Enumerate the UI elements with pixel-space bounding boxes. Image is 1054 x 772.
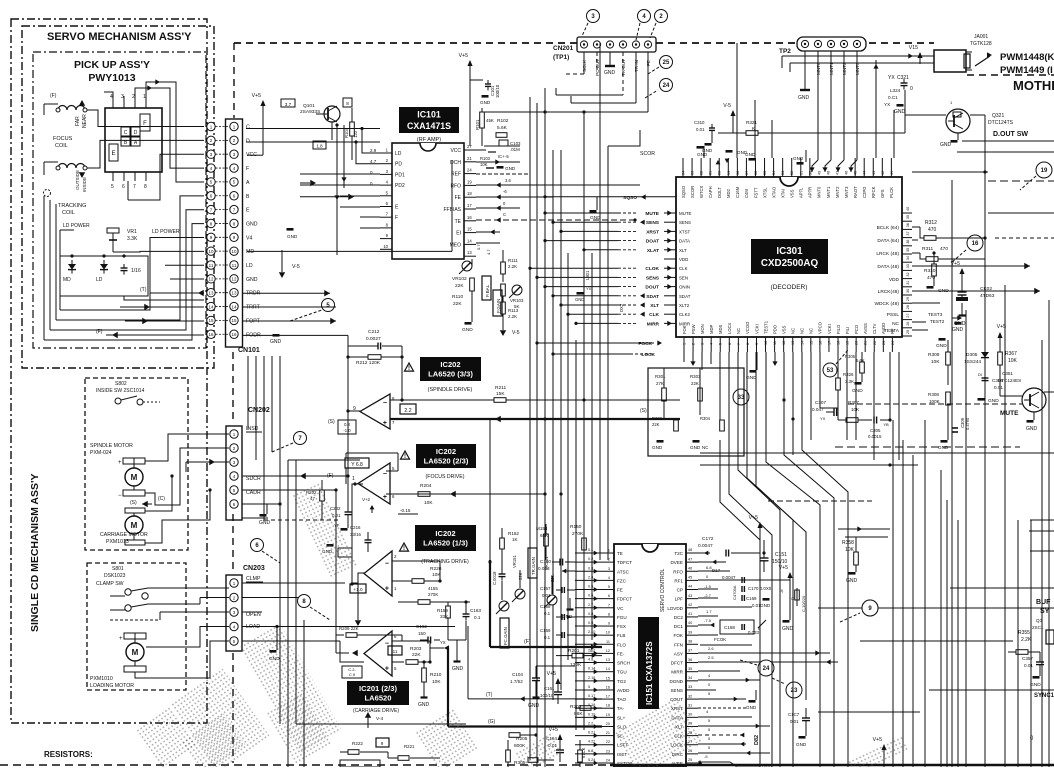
svg-text:R111: R111 <box>508 258 518 263</box>
svg-text:YX: YX <box>586 286 592 291</box>
svg-text:SYNC1: SYNC1 <box>1034 693 1054 699</box>
assembly border SINGLE CD MECHANISM <box>11 19 207 723</box>
resistor R312 <box>912 220 950 240</box>
svg-text:61CK: 61CK <box>581 747 586 758</box>
node 9 <box>840 600 878 622</box>
svg-text:18: 18 <box>606 704 610 708</box>
svg-text:VR151: VR151 <box>512 555 517 568</box>
svg-text:0.2: 0.2 <box>588 557 593 561</box>
capacitor C216 <box>322 525 372 557</box>
svg-text:FOK: FOK <box>674 633 684 638</box>
svg-text:M: M <box>132 648 139 657</box>
svg-text:0.1: 0.1 <box>544 635 551 640</box>
svg-text:17: 17 <box>467 203 472 208</box>
svg-text:CN201: CN201 <box>553 45 574 52</box>
svg-text:13: 13 <box>231 291 237 296</box>
node 23 <box>772 678 802 698</box>
svg-text:LA6520 (3/3): LA6520 (3/3) <box>428 369 473 378</box>
resistor R358 <box>842 537 858 584</box>
svg-text:2.2: 2.2 <box>404 408 411 414</box>
svg-text:LD POWER: LD POWER <box>152 229 180 235</box>
svg-text:39: 39 <box>906 215 910 219</box>
svg-text:MNT0: MNT0 <box>817 186 822 198</box>
svg-text:49: 49 <box>817 171 821 175</box>
opamp2 misc <box>362 497 418 514</box>
opamp1 feedback <box>328 346 404 504</box>
svg-text:GND: GND <box>952 327 964 333</box>
svg-text:130K: 130K <box>570 662 582 668</box>
svg-text:FGU: FGU <box>617 615 627 620</box>
svg-text:FFBIAS: FFBIAS <box>443 207 461 213</box>
svg-text:+: + <box>385 586 389 593</box>
scan artifact 1 <box>172 669 269 770</box>
svg-text:−: − <box>383 400 387 407</box>
svg-text:11: 11 <box>393 649 398 654</box>
svg-text:1.7/52: 1.7/52 <box>510 679 523 684</box>
svg-text:CN101: CN101 <box>238 347 260 354</box>
scan artifact 2b <box>293 484 357 576</box>
diode LD <box>96 260 108 283</box>
svg-text:TAO: TAO <box>617 697 627 702</box>
capacitor C321 <box>884 75 913 115</box>
IC101 left wires <box>246 127 380 228</box>
pickup block <box>105 94 162 190</box>
wire staircase bus <box>720 352 848 767</box>
svg-text:35: 35 <box>906 248 910 252</box>
svg-text:22: 22 <box>606 740 610 744</box>
node 9 overlay <box>862 600 878 616</box>
ground R310 <box>927 286 950 294</box>
svg-text:16: 16 <box>606 685 610 689</box>
svg-text:2.6: 2.6 <box>708 646 714 651</box>
svg-text:COIL: COIL <box>62 210 75 216</box>
svg-text:31: 31 <box>688 703 692 707</box>
svg-text:GND: GND <box>745 152 756 157</box>
svg-text:XTAO: XTAO <box>771 186 776 198</box>
svg-text:WDCK (48): WDCK (48) <box>874 301 899 307</box>
svg-text:PCO: PCO <box>854 324 859 334</box>
svg-text:C.0018: C.0018 <box>492 571 497 585</box>
svg-text:NC: NC <box>791 328 796 334</box>
svg-text:0.14: 0.14 <box>588 667 595 671</box>
svg-text:TE: TE <box>617 551 623 556</box>
svg-text:IC101: IC101 <box>417 110 441 120</box>
svg-text:D17-: D17- <box>712 568 722 573</box>
svg-text:PWM1448(K: PWM1448(K <box>1000 52 1054 63</box>
svg-text:F: F <box>395 215 398 221</box>
svg-text:CXA1471S: CXA1471S <box>407 121 451 131</box>
svg-text:42: 42 <box>688 603 692 607</box>
resistor R202 <box>570 704 602 717</box>
svg-text:21: 21 <box>606 731 610 735</box>
carriage motor <box>100 508 148 545</box>
svg-text:0.033: 0.033 <box>538 566 550 571</box>
svg-text:(G): (G) <box>488 719 496 725</box>
resistor R150 <box>570 524 586 553</box>
ground cluster right <box>936 338 947 349</box>
svg-text:25: 25 <box>906 330 910 334</box>
connector CN202 <box>226 426 242 520</box>
transistor Q351 MUTE <box>848 324 1054 432</box>
svg-text:7: 7 <box>608 603 610 607</box>
capacitor C171 <box>712 568 790 600</box>
svg-text:AVDD: AVDD <box>617 688 630 693</box>
resistor R204 <box>418 483 545 506</box>
svg-text:2.2K: 2.2K <box>1021 637 1032 643</box>
svg-text:MUTE: MUTE <box>679 211 692 216</box>
svg-text:6.21: 6.21 <box>588 731 595 735</box>
svg-text:GND: GND <box>259 520 271 526</box>
carriage bottom parts <box>340 738 440 767</box>
capacitor C212 <box>348 329 402 350</box>
svg-text:DOLT: DOLT <box>717 187 722 198</box>
svg-text:OPEN: OPEN <box>246 612 261 618</box>
node 2 <box>655 10 668 23</box>
svg-text:FILO: FILO <box>836 324 841 334</box>
svg-text:YX: YX <box>888 75 895 81</box>
svg-text:FAR: FAR <box>75 116 81 126</box>
svg-text:0.1: 0.1 <box>474 615 481 620</box>
opamp2 wires <box>346 453 563 586</box>
svg-text:0.8: 0.8 <box>344 422 350 427</box>
svg-text:TRRT: TRRT <box>246 305 261 311</box>
svg-text:27: 27 <box>906 313 910 317</box>
svg-text:C150: C150 <box>540 559 551 564</box>
svg-text:XLT: XLT <box>650 303 659 309</box>
svg-text:10K: 10K <box>845 547 855 553</box>
capacitor C151r <box>760 540 788 572</box>
svg-text:24: 24 <box>663 83 670 89</box>
svg-text:Q321: Q321 <box>992 113 1004 119</box>
carriage motor wires <box>145 474 212 543</box>
svg-text:A: A <box>246 180 250 186</box>
svg-text:GND: GND <box>793 156 804 161</box>
svg-text:15: 15 <box>231 318 237 323</box>
crystal X301 <box>951 261 995 327</box>
svg-text:RFO: RFO <box>673 569 683 574</box>
svg-text:11: 11 <box>209 263 214 268</box>
svg-text:19: 19 <box>467 179 472 184</box>
svg-text:C158: C158 <box>540 604 551 609</box>
svg-text:SENS: SENS <box>646 220 660 226</box>
svg-text:SERVO MECHANISM ASS'Y: SERVO MECHANISM ASS'Y <box>47 31 192 43</box>
svg-text:17: 17 <box>606 695 610 699</box>
svg-text:Q101: Q101 <box>303 103 315 109</box>
svg-text:(S): (S) <box>640 408 647 414</box>
svg-text:C16M: C16M <box>735 186 740 198</box>
svg-text:PD1: PD1 <box>395 172 405 178</box>
svg-text:SDAT: SDAT <box>679 294 691 299</box>
power V-5 arrow <box>281 250 283 272</box>
svg-text:38: 38 <box>688 640 692 644</box>
resistor R112 <box>501 302 519 322</box>
svg-text:4.7: 4.7 <box>486 249 491 255</box>
svg-text:V+5: V+5 <box>549 727 558 733</box>
svg-text:R310: R310 <box>924 268 936 274</box>
svg-text:GND: GND <box>652 445 663 450</box>
svg-text:GND: GND <box>287 234 298 239</box>
svg-text:YX: YX <box>884 102 890 107</box>
svg-text:15: 15 <box>208 318 214 323</box>
svg-text:PXM-024: PXM-024 <box>90 450 112 456</box>
svg-text:DFCT: DFCT <box>671 661 683 666</box>
svg-text:R302: R302 <box>652 416 663 421</box>
IC201 carriage label <box>347 681 409 705</box>
svg-text:PWM1449 (I: PWM1449 (I <box>1000 65 1053 76</box>
svg-text:(T): (T) <box>140 287 147 293</box>
svg-text:C: C <box>503 212 506 217</box>
power V+5 right of IC151 <box>779 565 806 632</box>
capacitor C150 <box>538 559 575 572</box>
svg-text:RESISTORS:: RESISTORS: <box>44 750 93 759</box>
svg-text:LRCK (48): LRCK (48) <box>876 251 899 257</box>
warning triangle tracking <box>400 543 409 551</box>
IC301 SQSO wire <box>543 151 676 221</box>
svg-text:SRCH: SRCH <box>617 661 630 666</box>
svg-text:8: 8 <box>346 101 349 106</box>
svg-text:0.7: 0.7 <box>476 244 481 250</box>
svg-text:31: 31 <box>906 281 910 285</box>
svg-text:R211: R211 <box>495 385 506 391</box>
connector JA001 <box>782 34 992 72</box>
svg-text:C305: C305 <box>870 428 881 433</box>
svg-text:C151: C151 <box>775 552 787 558</box>
assembly border SERVO MECHANISM <box>22 26 214 368</box>
svg-text:1.7: 1.7 <box>706 609 712 614</box>
potentiometer VR151 <box>512 555 525 602</box>
connector CN203 <box>226 575 242 651</box>
svg-text:-2.7: -2.7 <box>704 593 712 598</box>
svg-text:3.7: 3.7 <box>285 102 292 107</box>
svg-text:PDO: PDO <box>772 324 777 334</box>
svg-text:TESTA: TESTA <box>884 328 900 334</box>
svg-text:FCOK: FCOK <box>714 637 726 642</box>
svg-text:(F): (F) <box>327 473 334 479</box>
svg-text:MOTHE: MOTHE <box>1013 78 1054 93</box>
svg-text:4.22: 4.22 <box>588 740 595 744</box>
svg-text:270K: 270K <box>428 592 438 597</box>
network C103 <box>480 140 521 171</box>
svg-text:V+5: V+5 <box>459 53 468 59</box>
svg-text:0.0047: 0.0047 <box>698 543 713 549</box>
svg-text:FOK: FOK <box>682 325 687 334</box>
capacitor C1 1/16 <box>121 264 141 275</box>
svg-text:LRCK(48): LRCK(48) <box>878 289 900 295</box>
svg-text:CLMP: CLMP <box>246 576 261 582</box>
svg-text:9: 9 <box>608 622 610 626</box>
svg-text:1: 1 <box>608 549 610 553</box>
svg-text:0.01: 0.01 <box>790 719 799 724</box>
IC301 label <box>751 239 828 274</box>
scan artifact 5 <box>616 699 701 772</box>
svg-text:(F): (F) <box>96 329 103 335</box>
svg-text:MEO: MEO <box>450 242 462 248</box>
svg-text:CLK: CLK <box>679 266 688 271</box>
svg-text:VCKI: VCKI <box>754 324 759 334</box>
svg-text:2.5: 2.5 <box>708 655 714 660</box>
capacitor C158 <box>540 604 575 620</box>
svg-text:E: E <box>111 151 115 157</box>
warning triangle focus <box>401 451 410 459</box>
svg-text:43: 43 <box>688 594 692 598</box>
scan artifact 7 <box>849 737 908 772</box>
loading motor <box>90 633 146 689</box>
ground TP2 <box>804 51 806 90</box>
svg-text:C351: C351 <box>1002 371 1013 376</box>
svg-text:V-5: V-5 <box>512 330 520 336</box>
svg-text:F.BAL: F.BAL <box>485 284 490 297</box>
svg-text:C159: C159 <box>540 628 551 633</box>
IC301 top pin stubs <box>682 158 684 177</box>
svg-text:−: − <box>383 471 387 478</box>
svg-text:0.C1: 0.C1 <box>888 95 898 100</box>
resistor R159 <box>398 586 470 640</box>
svg-text:2.2K: 2.2K <box>508 264 517 269</box>
svg-text:C163: C163 <box>470 608 481 613</box>
svg-text:C307: C307 <box>815 400 826 405</box>
svg-text:120: 120 <box>353 130 358 138</box>
svg-text:40: 40 <box>688 621 692 625</box>
assembly border loading <box>87 563 186 690</box>
IC151 CXA1372S body <box>614 544 686 767</box>
svg-text:C,10/220: C,10/220 <box>801 595 806 612</box>
svg-text:R202: R202 <box>306 490 317 495</box>
svg-text:FOCUS: FOCUS <box>53 136 73 142</box>
svg-text:CADR: CADR <box>246 490 261 496</box>
svg-text:BUF: BUF <box>1036 599 1051 606</box>
svg-text:TEST3: TEST3 <box>928 312 943 317</box>
svg-text:SQSO: SQSO <box>681 185 686 198</box>
svg-text:0.01: 0.01 <box>994 385 1003 390</box>
svg-text:+: + <box>119 636 123 642</box>
power V+5 at CN101 <box>260 100 265 106</box>
node 25 <box>660 56 673 69</box>
IC301 bottom drop wires <box>684 352 899 460</box>
svg-text:FE-: FE- <box>617 651 625 656</box>
inductor L301 <box>575 252 592 302</box>
svg-text:+: + <box>383 494 387 501</box>
svg-text:TP2: TP2 <box>779 48 791 55</box>
svg-text:ISET: ISET <box>617 752 627 757</box>
focus coil <box>44 93 92 149</box>
resistor R211 <box>390 385 680 402</box>
svg-text:DATA (48): DATA (48) <box>877 264 899 270</box>
svg-text:R103: R103 <box>480 156 491 161</box>
svg-text:32: 32 <box>688 694 692 698</box>
CN203 pin labels <box>246 576 263 630</box>
svg-text:46: 46 <box>688 566 692 570</box>
svg-text:GND: GND <box>604 70 616 76</box>
svg-text:D: D <box>134 130 138 136</box>
node 33 <box>733 389 749 405</box>
transistor Q352 SYNC <box>1008 599 1054 742</box>
svg-text:22K: 22K <box>453 301 462 307</box>
svg-text:R203: R203 <box>410 646 422 652</box>
svg-text:Q3: Q3 <box>1036 618 1043 623</box>
svg-text:MD2: MD2 <box>726 188 731 198</box>
svg-text:0.01: 0.01 <box>542 593 551 598</box>
svg-text:C162: C162 <box>416 624 427 629</box>
svg-text:LOADING MOTOR: LOADING MOTOR <box>90 683 134 689</box>
svg-text:36: 36 <box>906 240 910 244</box>
board border top dashed <box>233 43 1054 763</box>
svg-text:MNT3: MNT3 <box>844 186 849 198</box>
spindle motor <box>90 443 145 499</box>
node 6 <box>251 539 264 552</box>
svg-text:5: 5 <box>111 184 114 190</box>
wire focus thick <box>488 420 602 650</box>
svg-text:GND: GND <box>798 95 810 101</box>
svg-text:(C): (C) <box>158 496 165 502</box>
svg-text:22K: 22K <box>652 422 660 427</box>
svg-text:53: 53 <box>827 368 834 374</box>
svg-text:B: B <box>246 194 250 200</box>
svg-text:MON: MON <box>700 324 705 334</box>
svg-text:GND: GND <box>936 343 947 349</box>
resistor R104 <box>344 108 358 160</box>
svg-text:MNT1: MNT1 <box>826 186 831 198</box>
svg-text:C2PO: C2PO <box>862 186 867 198</box>
svg-text:!: ! <box>403 546 405 552</box>
wire mid horizontals <box>242 290 466 724</box>
label FCGAIN <box>500 618 509 648</box>
svg-text:2.2K: 2.2K <box>508 314 517 319</box>
svg-text:FLO: FLO <box>617 642 626 647</box>
svg-text:1/16: 1/16 <box>131 268 141 274</box>
svg-text:SDAT: SDAT <box>646 294 659 300</box>
svg-text:FE: FE <box>455 195 462 201</box>
resistor R111 <box>501 250 519 282</box>
svg-text:FZC: FZC <box>617 578 627 583</box>
svg-text:VDD: VDD <box>889 277 900 283</box>
svg-text:!: ! <box>408 366 410 372</box>
svg-text:3: 3 <box>608 567 610 571</box>
svg-text:TG2: TG2 <box>617 679 626 684</box>
svg-text:19: 19 <box>1041 168 1048 174</box>
svg-text:1.8: 1.8 <box>316 144 323 149</box>
IC301 top componentry <box>697 43 895 165</box>
svg-text:4TD63: 4TD63 <box>980 293 995 299</box>
svg-text:VR1: VR1 <box>127 229 137 235</box>
svg-text:SENS: SENS <box>679 220 691 225</box>
svg-text:R312: R312 <box>925 220 937 226</box>
svg-text:14: 14 <box>208 304 214 309</box>
resistor R321 <box>694 103 905 155</box>
svg-text:NC: NC <box>892 321 899 327</box>
node 8 <box>298 595 311 608</box>
svg-text:RFO: RFO <box>450 183 461 189</box>
svg-text:16: 16 <box>972 241 979 247</box>
svg-text:XRST: XRST <box>646 229 659 235</box>
svg-text:0.01: 0.01 <box>696 127 705 132</box>
svg-text:36: 36 <box>688 658 692 662</box>
svg-text:DOAT: DOAT <box>646 239 659 245</box>
svg-text:26: 26 <box>906 322 910 326</box>
svg-text:C169: C169 <box>746 596 757 601</box>
svg-text:PSW: PSW <box>691 324 696 334</box>
svg-text:DTC124ES: DTC124ES <box>998 378 1021 383</box>
svg-text:DI: DI <box>978 372 982 377</box>
svg-text:0.5: 0.5 <box>588 585 593 589</box>
svg-text:+: + <box>118 460 122 466</box>
IC151 right wires <box>698 551 838 769</box>
svg-text:DC2: DC2 <box>674 615 684 620</box>
wire tracking T <box>430 626 602 727</box>
svg-text:22K: 22K <box>412 652 421 658</box>
op-amp U4 carriage <box>364 631 397 676</box>
svg-text:R309: R309 <box>928 352 940 358</box>
svg-text:RFCK: RFCK <box>871 186 876 198</box>
